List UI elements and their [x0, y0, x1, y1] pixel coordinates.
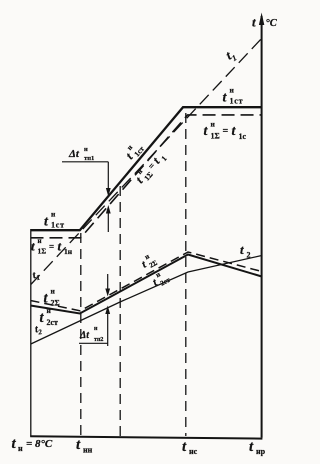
bottom label t_nc	[182, 439, 198, 456]
svg-text:= 8°С: = 8°С	[26, 438, 53, 450]
dim dt_tp1 upper shaft + down arrow	[107, 162, 109, 190]
svg-text:нр: нр	[256, 447, 266, 456]
svg-text:1ст: 1ст	[51, 221, 65, 230]
svg-text:нс: нс	[189, 447, 198, 456]
label t1st (top plateau)	[223, 86, 244, 106]
label t2 (right)	[240, 242, 251, 260]
curve t1sum dashed	[31, 115, 263, 238]
svg-text:t: t	[58, 239, 62, 254]
label t1st rotated (rising line)	[121, 138, 146, 163]
vertical dashed line mid	[119, 186, 121, 436]
svg-text:2: 2	[247, 251, 251, 260]
label dt_tp2	[79, 326, 103, 343]
svg-text:тп1: тп1	[84, 155, 94, 162]
left boundary line (t_n = 8C)	[30, 229, 32, 437]
svg-text:=: =	[49, 242, 54, 252]
label t2st (left)	[40, 306, 59, 327]
svg-text:2ст: 2ст	[47, 318, 59, 327]
svg-text:=: =	[223, 126, 229, 137]
svg-text:н: н	[18, 444, 23, 453]
svg-text:1Σ: 1Σ	[38, 247, 47, 256]
curve t2sum dashed	[31, 252, 262, 311]
label t2sum rotated (rising t2)	[138, 250, 159, 272]
svg-text:н: н	[51, 210, 56, 219]
svg-text:н: н	[84, 146, 88, 153]
label t1sum = t1 rotated (rising line)	[131, 148, 169, 187]
dim dt_tp2 lower shaft + up arrow	[107, 313, 109, 346]
dim dt_tp1 lower shaft + up arrow	[107, 212, 109, 232]
dim dt_tp2 upper shaft + down arrow	[107, 274, 109, 290]
svg-text:н: н	[38, 237, 42, 245]
svg-text:1Σ: 1Σ	[211, 132, 220, 141]
svg-text:тп2: тп2	[94, 337, 103, 343]
vertical dashed line t_nn	[80, 233, 82, 436]
svg-text:нн: нн	[83, 446, 93, 455]
curve t1st solid	[31, 107, 263, 230]
bottom label t_nn	[76, 437, 93, 455]
bottom axis	[30, 436, 262, 438]
svg-text:t: t	[252, 15, 256, 30]
vertical dashed line t_nc	[185, 113, 187, 436]
svg-text:н: н	[47, 306, 52, 315]
dim dt_tp2 underline	[79, 342, 108, 344]
label t1st (left plateau)	[44, 210, 65, 230]
svg-text:t: t	[240, 242, 244, 257]
svg-text:Δt: Δt	[68, 148, 80, 160]
curve t2st solid	[31, 255, 262, 314]
svg-text:°C: °C	[266, 18, 278, 29]
bottom label t_n = 8C	[12, 436, 53, 453]
label t2sum (left)	[44, 287, 60, 308]
svg-text:н: н	[51, 287, 56, 296]
svg-text:1ст: 1ст	[230, 97, 244, 106]
svg-text:1н: 1н	[64, 247, 73, 256]
label t1sum = t1n (left plateau)	[31, 237, 73, 256]
line t1 thin dashed diagonal	[31, 38, 262, 285]
svg-text:t: t	[31, 239, 35, 254]
svg-text:н: н	[230, 86, 235, 95]
svg-text:н: н	[211, 120, 216, 129]
axis t (right vertical)	[261, 16, 263, 438]
svg-text:1с: 1с	[239, 132, 247, 141]
dim dt_tp1 underline	[62, 161, 108, 163]
label t1sum = t1c (below top plateau)	[204, 120, 247, 142]
label t °C (axis)	[252, 15, 278, 30]
svg-text:Δt: Δt	[79, 330, 90, 341]
axis arrowhead	[259, 13, 264, 26]
svg-text:н: н	[94, 326, 98, 332]
bottom label t_np	[249, 439, 266, 456]
line t2 thin solid	[31, 256, 262, 345]
label dt_tp1	[68, 146, 94, 162]
label t2st rotated (rising t2)	[149, 267, 172, 290]
svg-text:2Σ: 2Σ	[51, 299, 60, 308]
